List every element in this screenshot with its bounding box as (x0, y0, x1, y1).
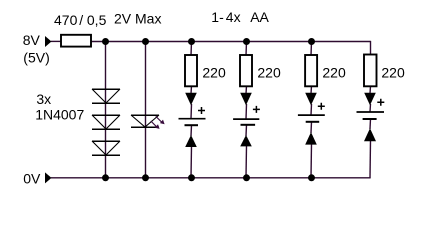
svg-text:470: 470 (54, 12, 78, 28)
svg-text:AA: AA (250, 9, 269, 25)
svg-text:0V: 0V (23, 171, 41, 187)
svg-text:2V Max: 2V Max (114, 11, 161, 27)
svg-text:4x: 4x (226, 9, 241, 25)
svg-text:1-: 1- (211, 9, 224, 25)
svg-text:220: 220 (322, 65, 346, 81)
svg-text:3x: 3x (36, 91, 51, 107)
svg-text:220: 220 (381, 65, 405, 81)
svg-text:1N4007: 1N4007 (35, 107, 84, 123)
svg-text:220: 220 (257, 65, 281, 81)
svg-text:220: 220 (202, 65, 226, 81)
svg-text:8V: 8V (23, 32, 41, 48)
svg-text:0,5: 0,5 (87, 12, 107, 28)
svg-text:(5V): (5V) (23, 49, 49, 65)
svg-text:/: / (79, 12, 83, 28)
